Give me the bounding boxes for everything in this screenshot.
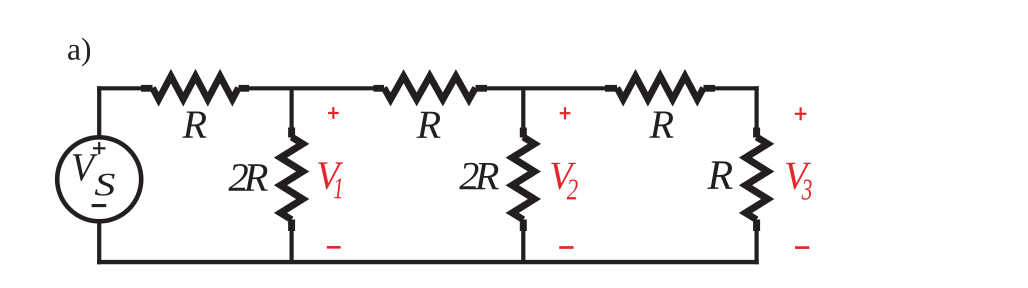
node A drop wire: [290, 88, 294, 130]
voltage source plus sign: [93, 142, 106, 154]
wire top segment R1 to R2 (through node A): [249, 86, 374, 90]
resistor R3 (series, top right): [605, 76, 715, 99]
V2 minus mark: [559, 246, 573, 249]
node A lower wire to bottom: [290, 230, 294, 262]
node B drop wire: [521, 88, 525, 130]
wire right rail upper: [754, 88, 758, 130]
voltage source VS circle: [57, 137, 141, 221]
V3 plus mark: [795, 107, 807, 120]
V1 plus mark: [328, 107, 339, 119]
label V1: [318, 162, 343, 189]
resistor 2R shunt 2: [512, 128, 534, 232]
V3 minus mark: [795, 246, 809, 249]
wire top segment R2 to R3 (through node B): [487, 86, 605, 90]
V2 plus mark: [560, 107, 571, 119]
label 2R of shunt 2: [459, 163, 478, 189]
label V2: [551, 163, 576, 190]
wire top-left segment (corner to R1 lead): [99, 86, 144, 90]
V1 minus mark: [327, 246, 341, 249]
wire left rail upper (corner down to source top): [97, 88, 101, 136]
voltage source label VS: [73, 154, 98, 181]
label V3: [786, 163, 811, 190]
label R of R1: [182, 112, 206, 138]
wire left rail lower (source bottom to bottom wire): [97, 223, 101, 263]
resistor R shunt 3: [746, 128, 768, 232]
label 2R of shunt 1: [228, 164, 247, 191]
resistor 2R shunt 1: [281, 128, 303, 232]
label R of R3: [649, 112, 673, 138]
label R of R2: [416, 112, 440, 138]
voltage source minus sign: [92, 204, 107, 207]
label R of shunt 3: [707, 161, 732, 189]
wire top segment R3 to right corner: [715, 86, 757, 90]
wire right rail lower: [754, 230, 758, 262]
resistor R1 (series, top left): [141, 76, 249, 99]
resistor R2 (series, top middle): [374, 76, 488, 99]
node B lower wire to bottom: [521, 230, 525, 262]
label a): [68, 38, 90, 67]
wire bottom rail: [99, 260, 756, 264]
